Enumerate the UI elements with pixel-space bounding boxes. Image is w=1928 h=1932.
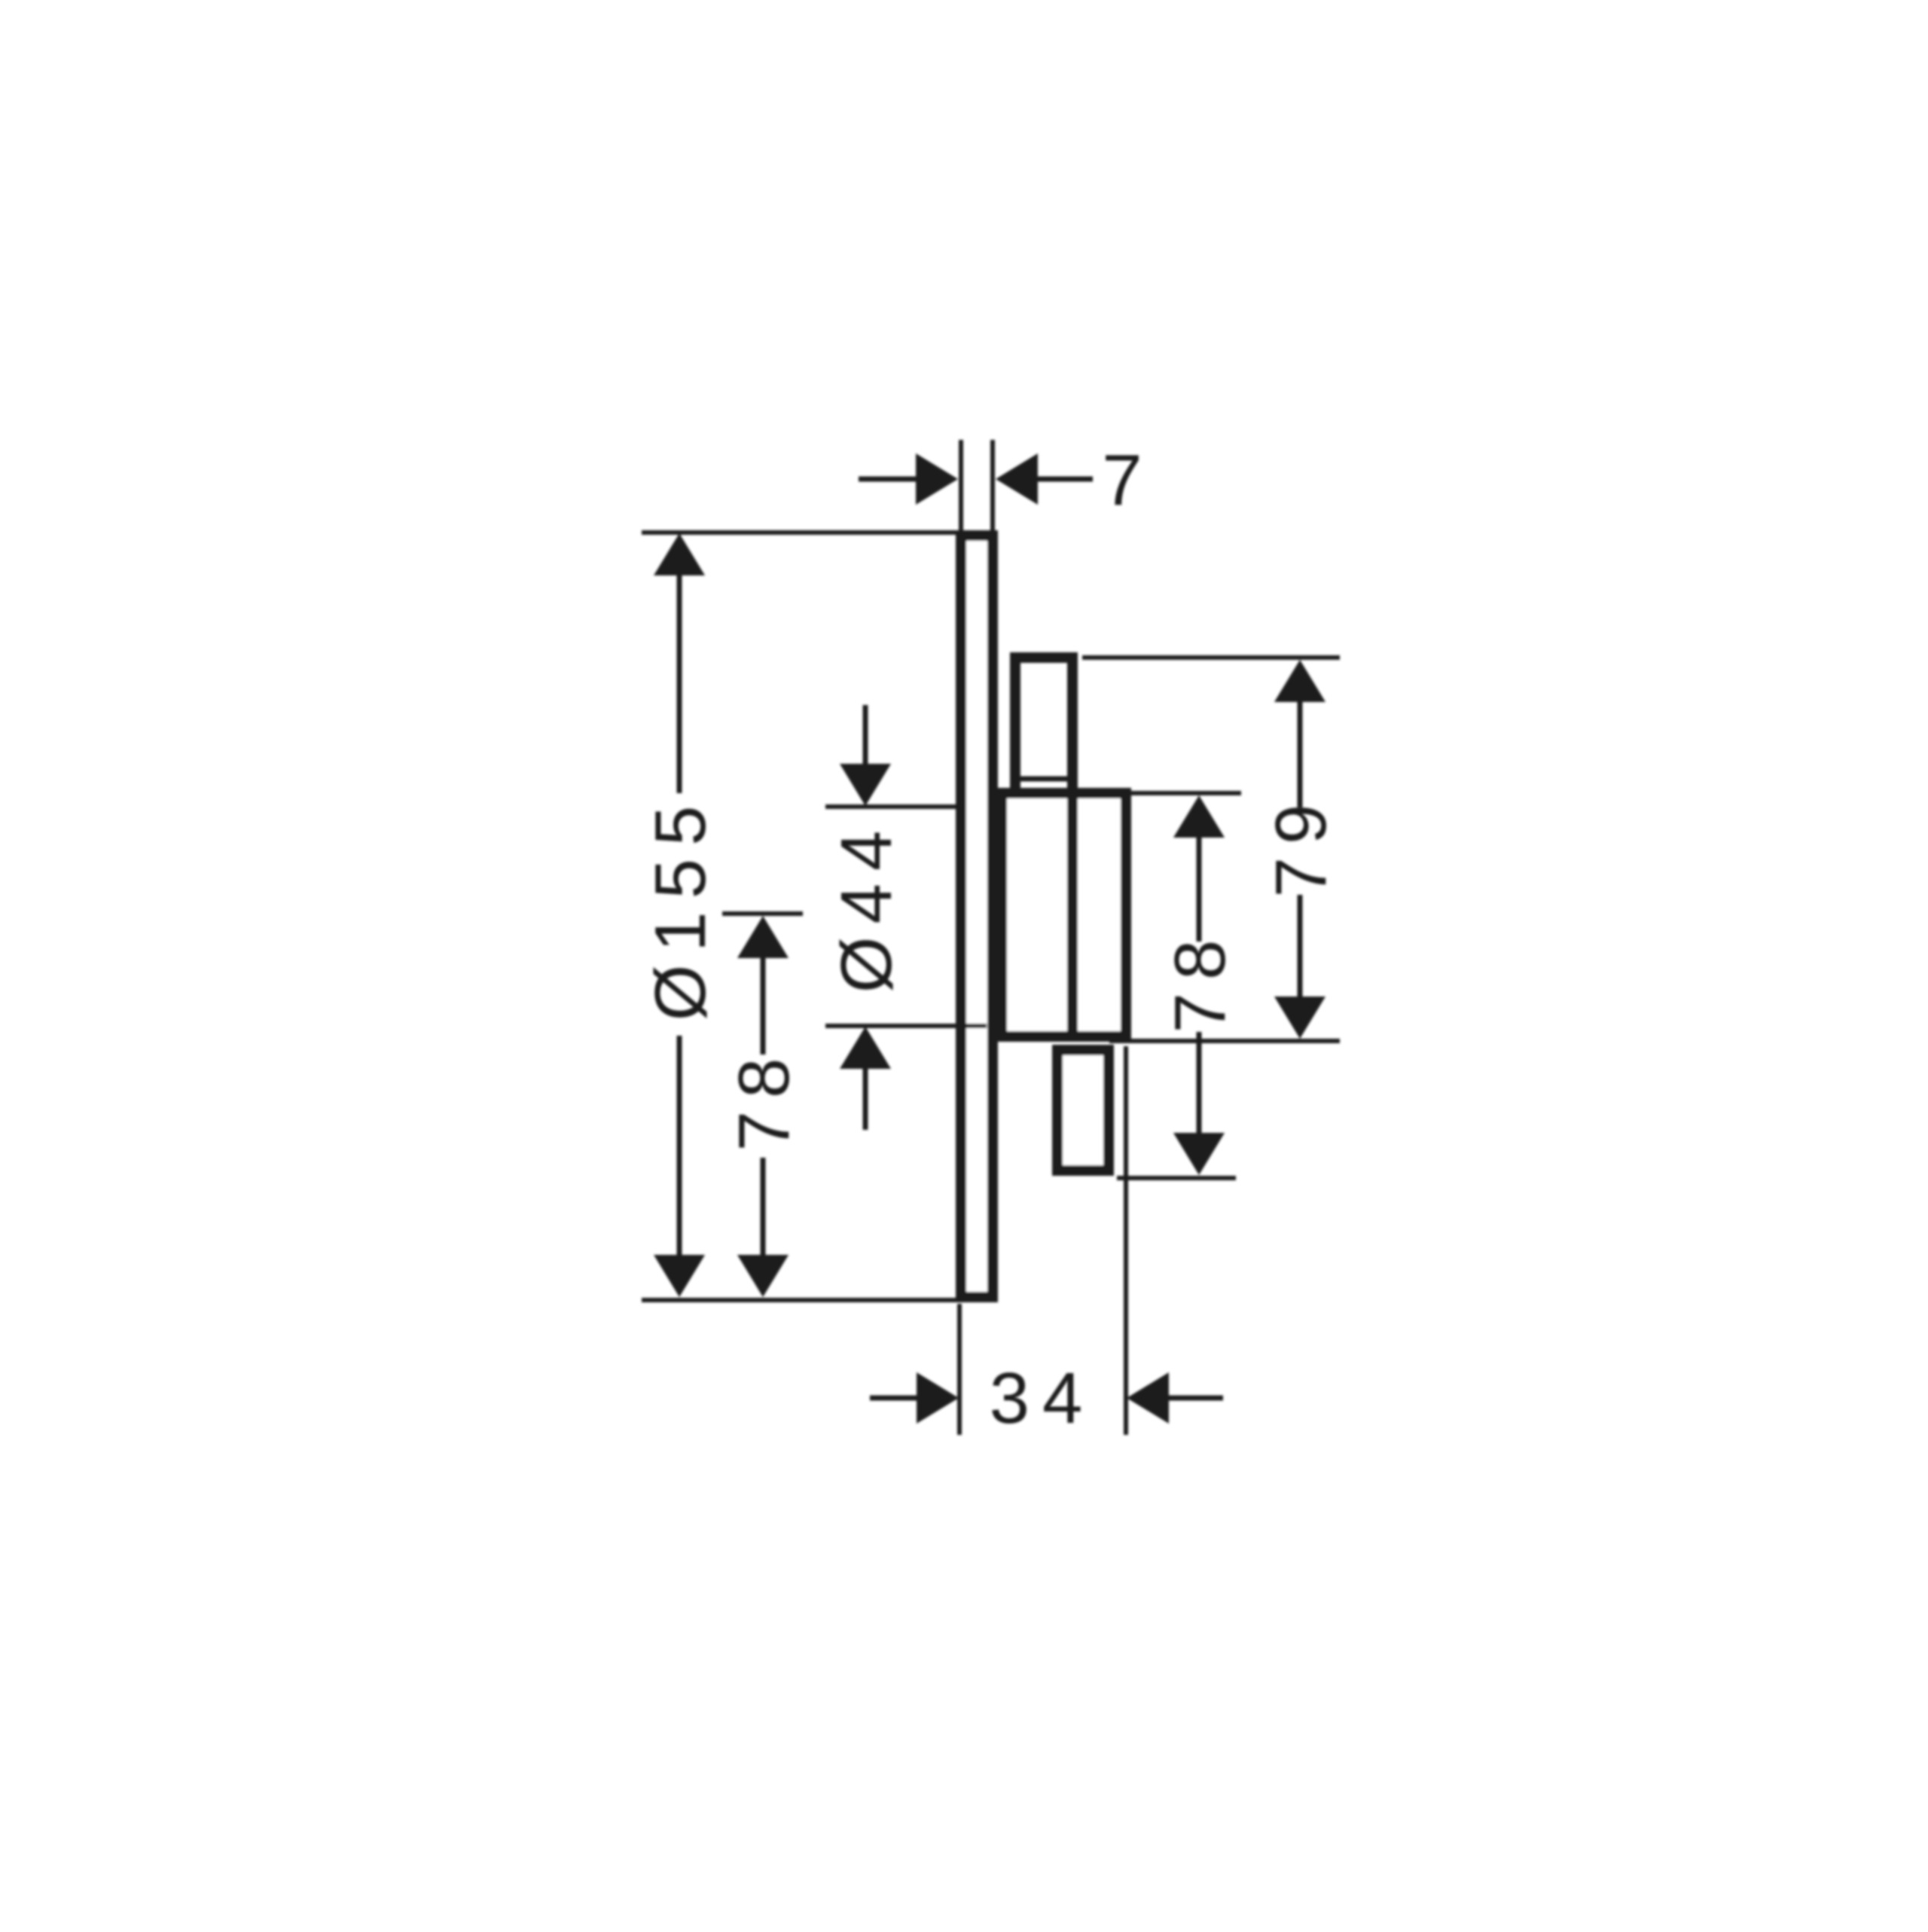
ext line D44 top <box>825 804 956 809</box>
arrow 34 left (right-pointing, outside) <box>917 1372 959 1424</box>
top stub joint line <box>1020 777 1067 782</box>
ext line 7 right <box>990 440 995 530</box>
ext line 7 left <box>959 440 963 530</box>
arrow 78 right bottom (down) <box>1173 1133 1225 1175</box>
ext line 78 right top <box>1131 791 1241 795</box>
top stub handle top edge <box>1015 652 1072 663</box>
ext line 34 left <box>957 1304 962 1435</box>
dim line 7 left tail <box>859 477 919 482</box>
arrow D44 top (down, outside) <box>840 764 891 806</box>
arrow 7 right (left-pointing, outside) <box>996 453 1038 505</box>
dim line D155 lower segment <box>677 1036 682 1258</box>
svg-text:78: 78 <box>724 1045 804 1152</box>
ext line 79 top <box>1082 655 1340 660</box>
dim line D155 upper segment <box>677 572 682 793</box>
ext line 78 right bottom <box>1117 1176 1236 1180</box>
svg-text:34: 34 <box>990 1358 1096 1439</box>
dim line 78 right upper segment <box>1197 835 1202 942</box>
dim line 78 left lower segment <box>761 1158 766 1258</box>
ext line 34 right <box>1124 1046 1128 1435</box>
svg-text:7: 7 <box>1102 440 1142 520</box>
top stub / sleeve right edge through block <box>1067 658 1078 1036</box>
svg-text:Ø155: Ø155 <box>640 793 721 1021</box>
arrow D155 top (up) <box>654 533 705 575</box>
arrow 79 top (up) <box>1274 660 1325 702</box>
ext line 79 bottom <box>1109 1039 1340 1043</box>
dim line 34 right tail <box>1167 1396 1223 1401</box>
wall plate (escutcheon) <box>961 536 993 1297</box>
dim line 78 right lower segment <box>1197 1032 1202 1138</box>
svg-text:Ø44: Ø44 <box>826 818 907 993</box>
dim line 78 left upper segment <box>761 955 766 1055</box>
top stub handle left edge <box>1010 658 1020 793</box>
arrow D155 bottom (down) <box>654 1255 705 1297</box>
valve body middle block (side view) <box>1002 793 1126 1036</box>
svg-text:78: 78 <box>1160 927 1240 1033</box>
arrow 78 left top (up) <box>737 916 789 958</box>
arrow 7 left (right-pointing, outside) <box>916 453 958 505</box>
dim line 7 right tail <box>1036 477 1093 482</box>
dim line D44 top tail <box>863 705 868 767</box>
dim line 79 lower segment <box>1298 895 1303 1000</box>
dim line D44 bottom tail <box>863 1066 868 1130</box>
svg-text:79: 79 <box>1261 792 1341 898</box>
ext line plate top (D155 top) <box>642 530 961 535</box>
ext line plate bottom (D155/78 bottom) <box>642 1298 961 1302</box>
dim line 79 upper segment <box>1298 699 1303 807</box>
arrow 78 left bottom (down) <box>737 1255 789 1297</box>
arrow 79 bottom (down) <box>1274 997 1325 1039</box>
arrow 78 right top (up) <box>1173 795 1225 838</box>
ext line D44 bottom <box>825 1024 987 1028</box>
dim line 34 left tail <box>870 1396 920 1401</box>
bottom stub <box>1057 1050 1109 1170</box>
arrow D44 bottom (up, outside) <box>840 1027 891 1069</box>
ext line axis center (78 left top) <box>722 911 803 916</box>
arrow 34 right (left-pointing, outside) <box>1127 1372 1169 1424</box>
